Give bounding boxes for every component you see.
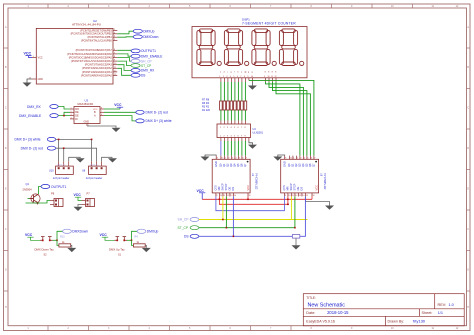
wire cascade U1 Q7S to U5 DS	[216, 196, 285, 210]
wire U3 A to DMX D+ flag	[104, 116, 136, 121]
wire OE to ground right	[305, 196, 329, 205]
wire U2 PB1 to DMXDown	[117, 36, 133, 38]
svg-text:DS: DS	[300, 187, 304, 191]
U2 left pin VCC	[32, 56, 43, 60]
wire U1 STCP riser (green)	[225, 196, 227, 227]
U3 pin labels	[75, 108, 96, 124]
svg-text:1x3 pin header: 1x3 pin header	[86, 177, 103, 180]
svg-text:6: 6	[101, 114, 102, 116]
svg-text:1.0: 1.0	[449, 303, 454, 307]
wire U2 PA2 to DS	[117, 68, 138, 75]
svg-text:Q4: Q4	[233, 163, 237, 167]
svg-text:P7: P7	[87, 192, 91, 196]
svg-text:MR: MR	[286, 186, 290, 190]
svg-text:Q7: Q7	[243, 163, 247, 167]
svg-text:Q7S: Q7S	[282, 185, 286, 190]
svg-text:Q6: Q6	[240, 163, 244, 167]
display bottom pin stubs	[221, 78, 276, 82]
net flag DMX_ENABLE at U3	[19, 114, 58, 118]
svg-text:SHCP: SHCP	[289, 183, 293, 190]
svg-text:DMX D- (2) red: DMX D- (2) red	[21, 147, 44, 151]
transistor Q1 2N3904	[23, 182, 41, 205]
U1 pin numbers bottom	[216, 195, 250, 197]
display DISP1 label	[242, 17, 296, 25]
net flag DMXDown at S2	[63, 229, 89, 233]
MCU U2 ATTINY24_44_84-PU body	[36, 19, 113, 84]
svg-text:Q2: Q2	[294, 163, 298, 167]
svg-text:2018-10-15: 2018-10-15	[327, 310, 349, 315]
svg-text:VCC: VCC	[25, 233, 33, 237]
resistor R4 1k	[133, 242, 145, 247]
svg-text:DMXDown: DMXDown	[143, 35, 158, 39]
display digit 4	[279, 29, 303, 66]
svg-text:74HC595N,112: 74HC595N,112	[255, 173, 258, 190]
svg-text:VCC: VCC	[93, 109, 98, 111]
resistor R9 on DS line	[292, 235, 299, 239]
svg-text:12: 12	[295, 195, 297, 197]
svg-text:7: 7	[101, 111, 102, 113]
U2 right pin stubs group1 PB3-PB0	[113, 30, 117, 40]
driver U4 ULN2003 top pin stubs	[221, 121, 246, 125]
net flag ST_CP left	[178, 226, 199, 230]
ground right of shift registers	[325, 206, 334, 210]
svg-text:Q3: Q3	[229, 163, 233, 167]
tact switch S1	[115, 237, 128, 241]
wires R array to ULN2003 inputs	[221, 110, 246, 121]
net flag DMXDown	[133, 35, 158, 39]
wire display seg c to R array	[227, 82, 229, 101]
svg-text:U10: U10	[49, 170, 54, 173]
net flag SH_CP	[131, 59, 152, 63]
net flag ST_CP	[131, 64, 151, 68]
U3 pin numbers	[71, 108, 103, 128]
svg-text:16: 16	[313, 195, 315, 197]
wire U1 DS riser (blue)	[232, 196, 234, 236]
svg-text:VCC: VCC	[100, 233, 108, 237]
VCC symbol at switch S1	[100, 233, 115, 240]
svg-text:9: 9	[264, 76, 265, 78]
wire U1 VCC riser	[247, 196, 249, 199]
svg-text:11: 11	[223, 195, 225, 197]
wire MR reset rail	[288, 196, 289, 204]
connector P8	[50, 192, 63, 207]
svg-text:D: D	[467, 147, 469, 150]
wire U1 MR riser	[218, 196, 220, 199]
svg-text:2: 2	[223, 76, 224, 78]
U5 top pin labels	[283, 161, 316, 167]
resistor R2	[241, 101, 244, 110]
svg-text:U3: U3	[85, 99, 89, 103]
wire Q1 base stub	[28, 198, 30, 200]
title block	[303, 294, 464, 326]
VCC symbol at P7	[74, 193, 82, 200]
U3 bottom GND pin stub	[86, 124, 88, 127]
svg-text:VCC: VCC	[74, 193, 82, 197]
svg-text:Sheet:: Sheet:	[422, 311, 433, 315]
wire U2 PA4 to ST_CP	[117, 61, 134, 65]
header U8 top pin stubs	[92, 161, 102, 166]
svg-text:5: 5	[233, 76, 234, 78]
shift register U5 74HC595 top pin stubs	[285, 156, 314, 160]
svg-text:12: 12	[227, 195, 229, 197]
svg-text:GND: GND	[38, 78, 44, 81]
wire DMX_ENABLE to U3 DE and RE	[58, 112, 70, 115]
svg-text:ST_CP: ST_CP	[178, 226, 189, 230]
U2 pin name labels	[67, 28, 112, 77]
wire P7 pin2 to ground	[78, 205, 82, 207]
svg-text:1/1: 1/1	[438, 311, 443, 315]
resistor R4	[234, 101, 237, 110]
svg-text:REV:: REV:	[438, 303, 447, 307]
svg-text:H: H	[5, 306, 7, 309]
svg-text:P8: P8	[51, 192, 55, 196]
wire S1 to node	[127, 239, 132, 241]
ground at U4 common pin	[248, 141, 257, 149]
svg-text:DMX_RX: DMX_RX	[27, 105, 42, 109]
resistor R10 1k	[59, 242, 71, 247]
svg-text:13: 13	[299, 195, 301, 197]
net flag DS left	[184, 234, 199, 238]
wire display digit1 select	[266, 82, 300, 156]
wire Q1 emitter to P8	[26, 201, 51, 204]
svg-text:14: 14	[234, 195, 236, 197]
svg-text:OUTPUT1: OUTPUT1	[51, 185, 67, 189]
net flag DMXUp	[133, 29, 154, 33]
tact switch S2	[40, 237, 53, 241]
ground at S1	[142, 248, 151, 252]
svg-text:EasyEDA V5.9.16: EasyEDA V5.9.16	[306, 320, 335, 324]
svg-text:c: c	[227, 72, 228, 74]
net flag DMX_RX	[131, 69, 155, 73]
wire display digit2 select	[269, 82, 303, 156]
ground at U8	[108, 158, 117, 162]
svg-text:(PCINT4/T1/SCL/USCK/ADC4)PA4: (PCINT4/T1/SCL/USCK/ADC4)PA4	[71, 59, 112, 63]
svg-text:7: 7	[240, 76, 241, 78]
svg-text:9: 9	[216, 195, 217, 197]
svg-text:OE: OE	[228, 186, 232, 190]
shift register U5 bottom pin stubs	[284, 193, 312, 197]
svg-text:(PCINT0/AREF/ADC0)PA0: (PCINT0/AREF/ADC0)PA0	[81, 73, 112, 77]
ground below display common pin	[248, 82, 257, 90]
net flag DMX_RX at U3	[27, 105, 58, 109]
wire U8 gnd pin to ground	[102, 157, 112, 161]
wire R9 to ground	[295, 238, 297, 245]
svg-text:Q3: Q3	[298, 163, 302, 167]
wire U5 STCP riser (green)	[294, 196, 296, 227]
svg-text:Date:: Date:	[306, 311, 315, 315]
U5 pin numbers bottom	[285, 195, 315, 197]
svg-text:10: 10	[288, 195, 290, 197]
U3 right pin stubs	[100, 109, 104, 116]
svg-text:DMX_RX: DMX_RX	[141, 69, 155, 73]
svg-text:G: G	[467, 269, 469, 272]
svg-text:4: 4	[230, 76, 231, 78]
svg-text:VCC: VCC	[246, 185, 250, 191]
shift register U1 bottom pin stubs	[216, 193, 248, 197]
U1 pin numbers top	[217, 158, 247, 160]
wire display digit4 select	[276, 82, 310, 156]
svg-text:1: 1	[219, 76, 220, 78]
U5 pin numbers top	[285, 158, 315, 160]
svg-text:1: 1	[71, 108, 72, 110]
display segment pin labels	[220, 72, 277, 74]
junction dot STCP	[226, 227, 228, 229]
svg-text:ATTINY24_44_84-PU: ATTINY24_44_84-PU	[72, 23, 101, 27]
svg-text:DMX D+ (3) white: DMX D+ (3) white	[15, 138, 41, 142]
svg-text:Q1: Q1	[26, 182, 30, 186]
resistor R3	[237, 101, 240, 110]
wire ST_CP bus (green)	[199, 227, 295, 229]
svg-text:3: 3	[71, 114, 72, 116]
svg-text:9: 9	[247, 76, 248, 78]
svg-text:14: 14	[302, 195, 304, 197]
svg-text:R10: R10	[60, 235, 65, 238]
wire display digit3 select	[273, 82, 307, 156]
svg-text:3: 3	[226, 76, 227, 78]
display digit 1	[197, 29, 221, 66]
transceiver U3 MAX481CPA body	[74, 99, 100, 124]
resistor R7	[223, 101, 226, 110]
U1 top pin labels	[214, 161, 247, 167]
header U10 top pin stubs	[59, 161, 69, 166]
wire display seg b to R array	[237, 82, 239, 101]
wire display seg g to R array	[230, 82, 232, 101]
svg-text:DS: DS	[231, 187, 235, 191]
svg-text:SHCP: SHCP	[221, 183, 225, 190]
svg-text:DMX Down Tac: DMX Down Tac	[35, 247, 55, 251]
net flag DMX D+ (3) white	[136, 119, 172, 123]
wire U10 gnd pin to ground	[69, 157, 81, 161]
wire DMX D- to headers	[56, 148, 97, 161]
svg-text:(PCINT5/OC1B/MISO/DO/ADC5)PA5: (PCINT5/OC1B/MISO/DO/ADC5)PA5	[69, 55, 113, 59]
svg-text:+5V D+ D-: +5V D+ D-	[90, 165, 99, 167]
wire U5 VCC riser	[311, 196, 313, 199]
ground at S2	[67, 248, 76, 252]
svg-text:Q6: Q6	[308, 163, 312, 167]
svg-text:VCC: VCC	[314, 185, 318, 191]
wire U3 GND to ground	[87, 126, 116, 128]
svg-text:DI: DI	[75, 118, 78, 121]
wire R10 to ground	[71, 245, 72, 248]
wire U3 B to DMX D- flag	[104, 111, 136, 113]
junction dot DS	[233, 236, 235, 238]
svg-text:Q5: Q5	[305, 163, 309, 167]
svg-text:1x3 pin header: 1x3 pin header	[53, 177, 70, 180]
display pin numbers	[219, 76, 276, 78]
wire U2 PB2 to DMXUp	[117, 31, 133, 34]
resistor R8	[220, 101, 223, 110]
net flag OUTPUT1 at Q1	[41, 184, 67, 188]
svg-text:MR: MR	[217, 186, 221, 190]
ground below R9	[292, 245, 301, 249]
svg-text:SH_CP: SH_CP	[141, 59, 152, 63]
svg-text:10: 10	[220, 195, 222, 197]
net flag DMX D- (2) red to headers	[21, 146, 56, 150]
svg-text:STCP: STCP	[224, 183, 228, 190]
svg-text:G: G	[5, 269, 7, 272]
svg-text:OUTPUT1: OUTPUT1	[141, 49, 156, 53]
svg-text:C: C	[467, 107, 469, 110]
wire U3 VCC pin to VCC symbol	[104, 108, 120, 110]
svg-text:Q1: Q1	[222, 163, 226, 167]
wire display seg dp to R array	[244, 82, 246, 101]
svg-text:VCC: VCC	[114, 103, 122, 107]
svg-text:GND: GND	[214, 161, 218, 167]
display DISP1 body	[192, 27, 307, 78]
svg-text:(PCINT8/XTAL1/CLKI)PB0: (PCINT8/XTAL1/CLKI)PB0	[81, 39, 112, 43]
wire node down to R4	[132, 240, 134, 245]
svg-text:DS: DS	[141, 74, 145, 78]
net flag DS	[131, 73, 145, 77]
svg-text:D: D	[5, 147, 7, 150]
wire DMX_RX to U3 RO	[58, 107, 70, 110]
wire U2 PA7 to OUTPUT1	[117, 49, 138, 51]
svg-text:VCC: VCC	[197, 189, 205, 193]
wire DS bus (blue)	[199, 235, 293, 237]
junction dots on VCC rail	[219, 199, 289, 206]
U1 bottom pin labels	[214, 183, 250, 190]
ground at U1 GND pin	[201, 155, 217, 161]
svg-text:ULN2001: ULN2001	[253, 131, 264, 134]
svg-text:DMX D- (2) red: DMX D- (2) red	[146, 111, 169, 115]
shift register U5 74HC595 body	[281, 159, 326, 193]
svg-text:8: 8	[244, 76, 245, 78]
wire SH_CP bus (yellow)	[199, 219, 308, 221]
svg-text:frty130: frty130	[413, 319, 426, 324]
VCC symbol at shift register rail	[197, 189, 206, 200]
svg-text:H: H	[467, 306, 469, 309]
svg-text:Q1: Q1	[291, 163, 295, 167]
svg-text:2N3904: 2N3904	[23, 188, 33, 192]
driver U4 bottom pin stubs	[221, 138, 249, 142]
svg-text:(PCINT10/INT0/OC0A/CKOUT)PB2: (PCINT10/INT0/OC0A/CKOUT)PB2	[71, 32, 113, 36]
wire display seg f to R array	[234, 82, 236, 101]
svg-text:(PCINT1/AIN0/ADC1)PA1: (PCINT1/AIN0/ADC1)PA1	[82, 70, 112, 74]
display digit 2	[224, 29, 248, 66]
wire node to DMXDown flag	[57, 231, 63, 240]
wire Q1 collector to OUTPUT1	[39, 187, 42, 195]
svg-text:Q0: Q0	[287, 163, 291, 167]
svg-text:ST_CP: ST_CP	[141, 64, 151, 68]
ground at U10	[76, 158, 85, 162]
svg-text:(PCINT7/ICP/OC0B/ADC7)PA7: (PCINT7/ICP/OC0B/ADC7)PA7	[76, 48, 113, 52]
ground at U3	[112, 128, 121, 132]
wire U2 PA5 to SH_CP	[117, 58, 134, 62]
svg-text:New Schematic: New Schematic	[308, 303, 346, 309]
resistor R5	[230, 101, 233, 110]
svg-text:MAX481CPA: MAX481CPA	[78, 102, 94, 106]
wire U5 SHCP riser (yellow)	[290, 196, 292, 219]
wire display seg e to R array	[220, 82, 222, 101]
VCC symbol at U2	[24, 52, 33, 58]
net flag SH_CP left	[178, 218, 199, 222]
svg-text:Q2: Q2	[226, 163, 230, 167]
U3 left pin stubs	[70, 109, 74, 119]
svg-text:GND: GND	[283, 161, 287, 167]
net flag DMXUp at S1	[137, 229, 158, 233]
wire U1 SHCP riser (yellow)	[222, 196, 224, 219]
svg-text:2: 2	[71, 111, 72, 113]
svg-text:+5V D+ D-: +5V D+ D-	[57, 165, 66, 167]
shift register U1 74HC595 top pin stubs	[216, 156, 245, 160]
net flag DMX D- (2) red	[136, 110, 168, 114]
svg-text:7-SEGMENT 4DIGIT COUNTER: 7-SEGMENT 4DIGIT COUNTER	[242, 22, 296, 26]
svg-text:DMXUp: DMXUp	[143, 30, 154, 34]
wire S2 to node	[53, 239, 58, 241]
VCC symbol at switch S2	[25, 233, 40, 240]
svg-text:DMXDown: DMXDown	[72, 230, 88, 234]
wire U2 PA3 to DMX_RX	[117, 65, 138, 71]
svg-text:C: C	[5, 107, 7, 110]
svg-text:DMXUp: DMXUp	[147, 230, 159, 234]
svg-text:Q4: Q4	[301, 163, 305, 167]
wire VCC rail to both 595 chips	[202, 198, 312, 200]
display digit 3	[252, 29, 276, 66]
svg-text:Q7S: Q7S	[214, 185, 218, 190]
ground at U2 GND pin	[23, 79, 33, 87]
svg-text:OE: OE	[296, 186, 300, 190]
svg-text:74HC595N,112: 74HC595N,112	[323, 173, 326, 190]
svg-text:15: 15	[306, 195, 308, 197]
wire U4 out1 to U1 (blue)	[220, 141, 222, 156]
svg-text:8: 8	[101, 108, 102, 110]
connector P7	[82, 192, 95, 207]
U2 pin numbers	[114, 29, 117, 76]
svg-text:16: 16	[249, 195, 251, 197]
U2 right pin stubs group2 PA7-PA0	[113, 50, 117, 75]
svg-text:SH_CP: SH_CP	[178, 218, 190, 222]
wire R4 to ground	[145, 245, 146, 248]
ground at U5 GND pin	[273, 155, 284, 161]
svg-text:DMX D+ (3) white: DMX D+ (3) white	[146, 119, 172, 123]
wire DMX D+ to headers	[56, 139, 92, 161]
svg-text:(PCINT11/RESET/DW)PB3: (PCINT11/RESET/DW)PB3	[80, 28, 112, 32]
resistor R1	[244, 101, 247, 110]
wire display seg d to R array	[223, 82, 225, 101]
svg-text:STCP: STCP	[293, 183, 297, 190]
driver U4 ULN2003 body	[217, 124, 264, 138]
net flag DMX D+ (3) white to headers	[15, 137, 56, 141]
wire display extra pin to shift register 2	[249, 80, 314, 155]
svg-text:4: 4	[71, 117, 72, 119]
U4 inner pin marks	[220, 127, 247, 137]
svg-text:9: 9	[285, 195, 286, 197]
svg-text:TITLE:: TITLE:	[306, 296, 316, 300]
wire U2 PA6 to DMX_ENABLE	[117, 54, 138, 56]
net flag DMX_ENABLE	[131, 54, 162, 58]
svg-text:VCC: VCC	[38, 57, 43, 60]
svg-text:11: 11	[292, 195, 294, 197]
net flag OUTPUT1	[131, 49, 156, 53]
svg-text:DMX_ENABLE: DMX_ENABLE	[19, 114, 42, 118]
svg-text:Q5: Q5	[236, 163, 240, 167]
svg-text:VCC: VCC	[24, 52, 32, 56]
svg-text:GND: GND	[84, 121, 90, 124]
wires U4 outputs to shift register 1	[224, 141, 245, 156]
ground at P7	[74, 207, 83, 211]
wire display seg a to R array	[241, 82, 243, 101]
svg-text:DMX_ENABLE: DMX_ENABLE	[141, 55, 162, 59]
svg-text:DS: DS	[184, 235, 189, 239]
svg-text:6: 6	[237, 76, 238, 78]
U2 left pin GND	[29, 77, 44, 81]
svg-text:R1 220: R1 220	[202, 109, 211, 112]
resistor array labels R1-R8	[202, 99, 211, 112]
svg-text:13: 13	[230, 195, 232, 197]
svg-text:DMX Up Tac: DMX Up Tac	[109, 247, 125, 251]
svg-text:(PCINT9/XTAL2)PB1: (PCINT9/XTAL2)PB1	[87, 35, 112, 39]
svg-text:(PCINT2/AIN1/ADC2)PA2: (PCINT2/AIN1/ADC2)PA2	[82, 66, 112, 70]
